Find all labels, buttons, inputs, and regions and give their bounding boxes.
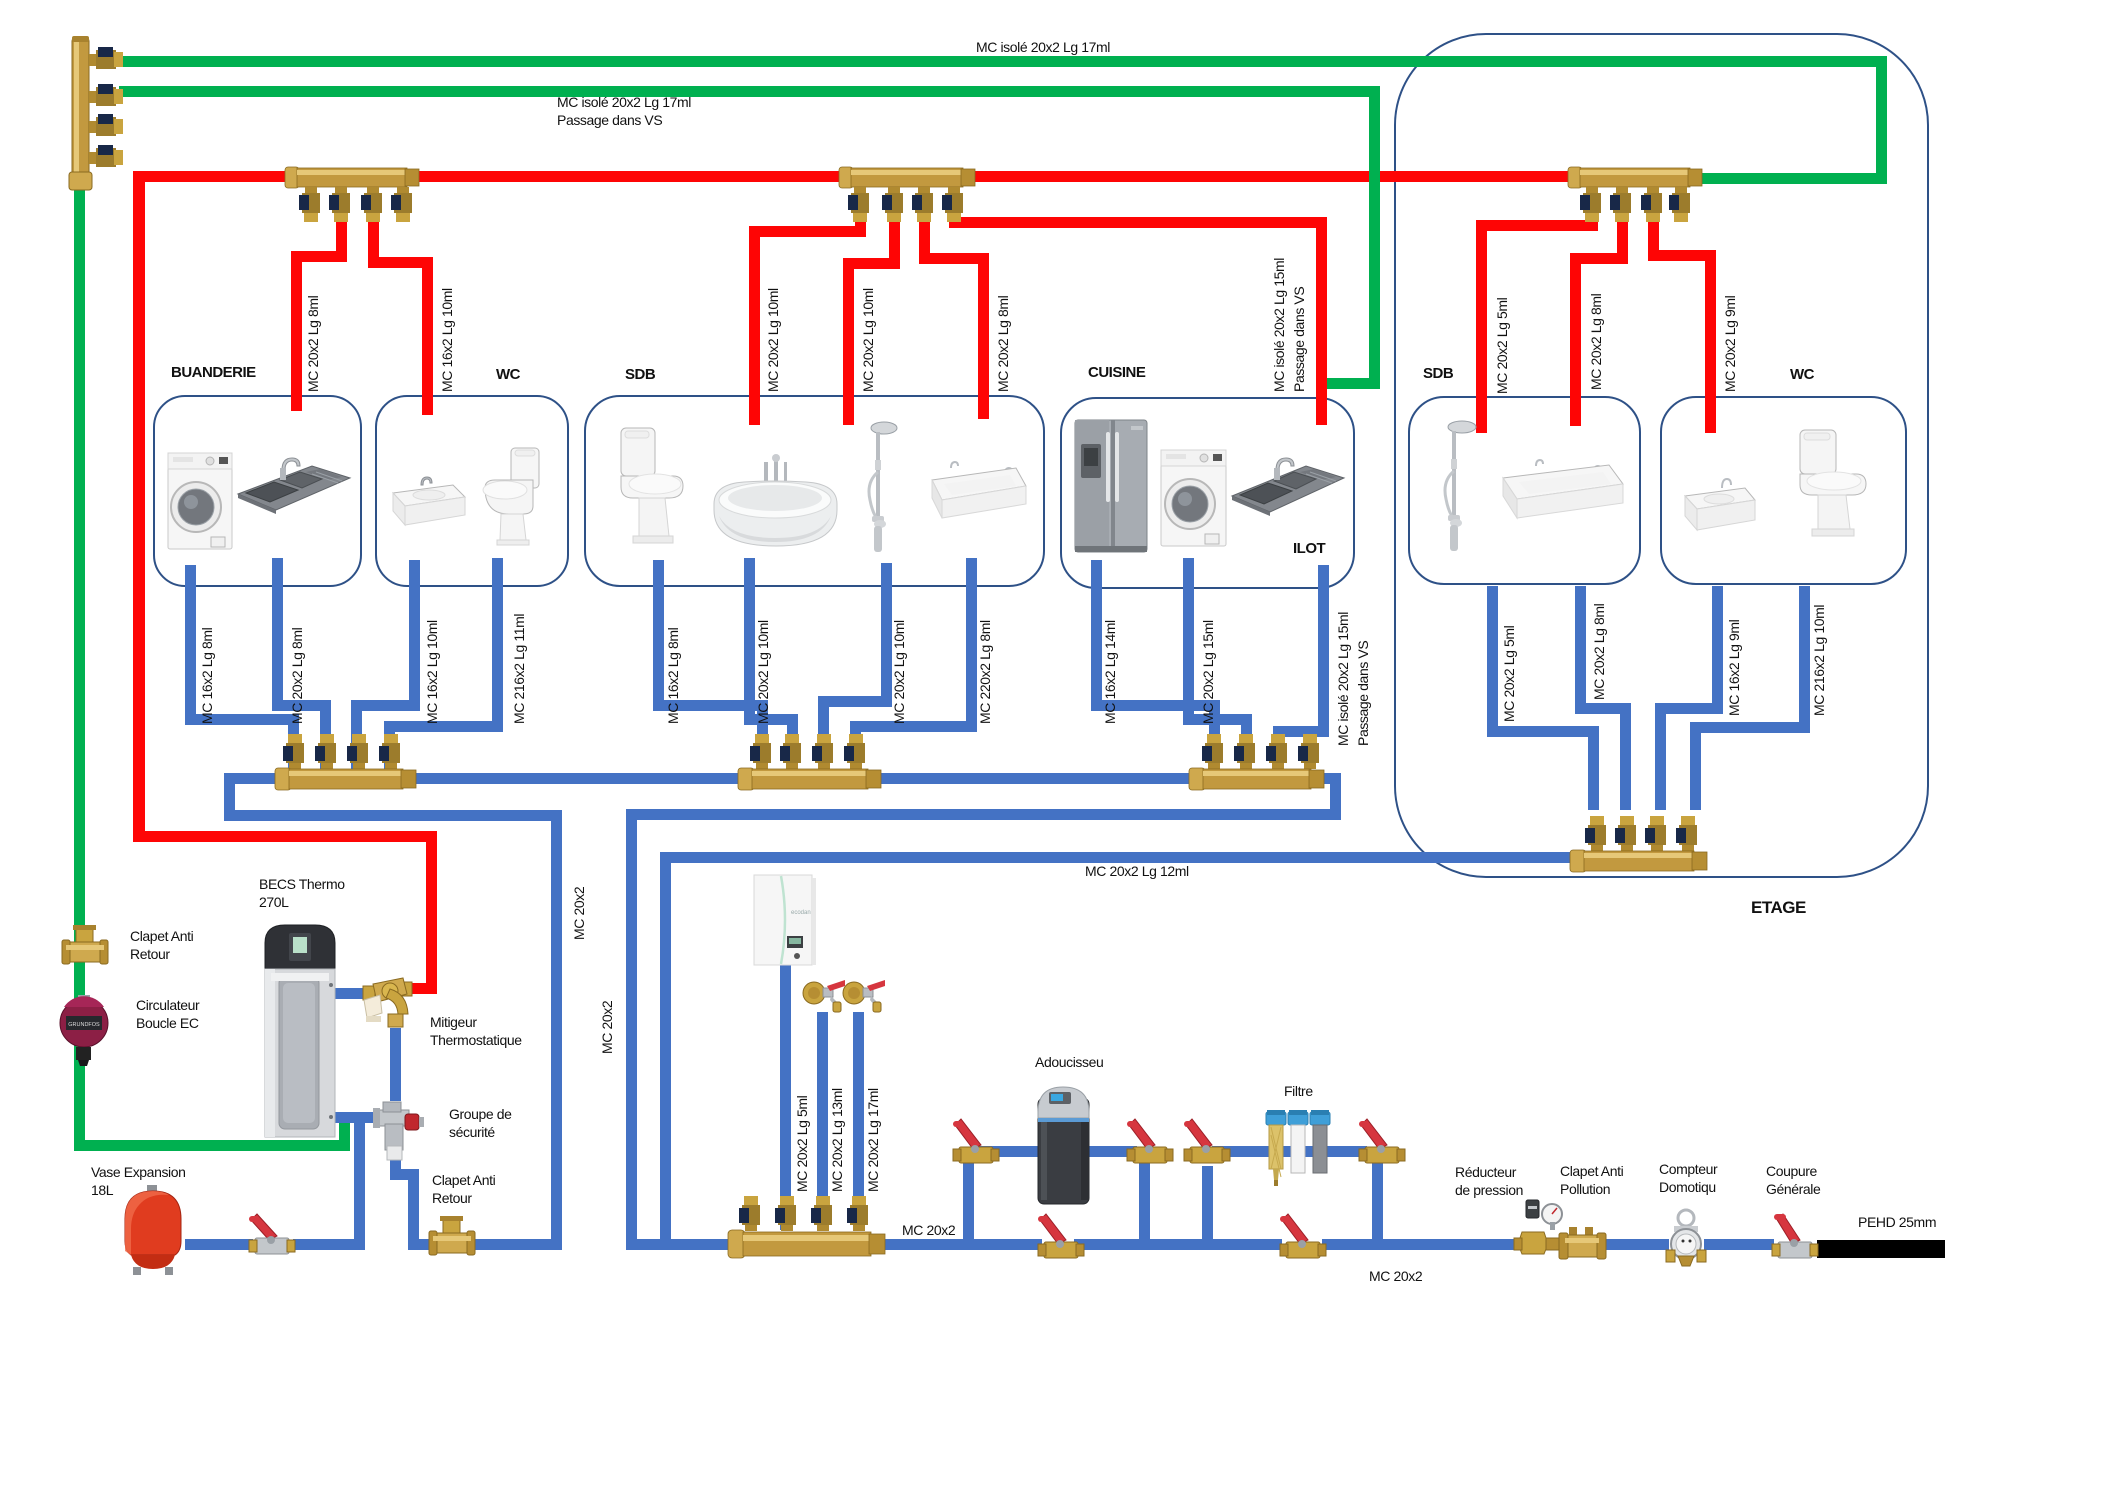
zone SDB etage [1408,396,1641,585]
ball valve filtre inlet [1184,1115,1230,1171]
label Circulateur Boucle EC [136,996,199,1032]
label Clapet Anti Retour (top) [130,927,193,963]
manifold hot 3 (ETAGE) [1568,166,1708,224]
label hot run CUISINE [1272,258,1286,392]
ball valve bypass adoucisseur (main line) [1038,1210,1084,1266]
wire blue manifold2-manifold3 chain [881,773,1191,784]
ball valve filtre outlet [1359,1115,1405,1171]
label Vase Expansion 18L [91,1163,186,1199]
zone ETAGE (outer) [1394,33,1929,878]
wire blue vase stub [185,1239,253,1250]
wall sink SDB etage [1501,458,1625,526]
manifold hot source vertical (top-left) [60,36,124,196]
wire blue adoucisseur inlet [974,1146,1038,1157]
wire green riser to heater bottom [339,1112,350,1151]
wire blue filtre bypass right riser [1372,1160,1383,1250]
adoucisseur (water softener) [1037,1086,1090,1206]
label riser tap2 MC 20x2 Lg 17ml [866,1088,880,1192]
zone BUANDERIE [153,395,362,587]
toilet WC [475,448,543,546]
wire red drop to SDB toilet side [855,208,866,237]
label cold drop sdb etage sink [1592,604,1606,700]
label hot drop BUANDERIE [306,296,320,392]
shower column SDB [858,420,900,558]
tap robinet puisage 2 [843,976,885,1014]
wire blue bottom main manifold4 to valve [885,1239,1042,1250]
label Clapet Anti Retour (bottom) [432,1171,495,1207]
check valve clapet anti retour (heater feed) [429,1216,477,1262]
manifold cold ETAGE [1570,816,1710,874]
wire blue MC20x2 riser B [626,809,637,1250]
wire blue CUISINE washer drop [1183,558,1194,725]
wire red drop to WC [368,208,379,268]
wire blue bottom main clapet to compteur [1603,1239,1669,1250]
label Mitigeur Thermostatique [430,1013,522,1049]
label hot drop WC etage [1723,296,1737,392]
wire blue SDB shower drop [881,563,892,707]
wire blue manifold1 left stub [224,773,277,784]
ball valve coupure generale [1772,1210,1818,1266]
wire green return to ETAGE manifold [1702,173,1887,184]
label cold drop cuisine washer [1201,620,1215,724]
filtre (3 cartridges) [1266,1110,1330,1188]
wire blue vase run to riser [293,1239,354,1250]
compteur domotique [1666,1208,1706,1270]
wire green drop at CUISINE [1369,86,1380,389]
label cold drop buanderie sink [290,628,304,724]
bathtub SDB [712,452,839,552]
label Groupe de securite [449,1105,512,1141]
vase expansion 18L [117,1185,189,1277]
wire red run to CUISINE (MC isole 20x2 Lg 15ml) [949,208,960,228]
wire green right drop inside ETAGE [1876,56,1887,184]
label CUISINE [1088,364,1145,381]
wire blue riser vase expansion [354,1112,365,1250]
label riser ecodan MC 20x2 Lg 5ml [795,1096,809,1192]
BECS Thermo 270L heater [261,921,338,1143]
wire blue WC basin drop [409,560,420,711]
wire green loop return left vertical [74,186,85,1151]
wire red hot bottom run [133,831,437,842]
label MC isole top run [976,38,1110,56]
wire red drop to SDB etage shower [1587,208,1598,231]
svg-text:GRUNDFOS: GRUNDFOS [68,1022,100,1028]
label hot drop SDB etage 2 [1589,294,1603,390]
manifold hot 2 (SDB/CUISINE) [839,166,979,224]
wire blue adoucisseur bypass right riser [1139,1160,1150,1250]
shower column SDB etage [1432,419,1480,557]
wire red drop to SDB etage sink [1617,208,1628,264]
washing machine CUISINE [1160,446,1227,550]
label Coupure Generale [1766,1162,1820,1198]
wire blue bottom main reducteur to clapet pollution [1555,1239,1603,1250]
washing machine BUANDERIE [167,449,233,553]
wire green elbow into CUISINE hot pipe [1327,378,1380,389]
wire blue adoucisseur outlet [1089,1146,1137,1157]
wire blue CUISINE fridge drop [1091,560,1102,711]
label cold drop sdb shower [892,620,906,724]
wire blue manifold3 right feed elbow [1323,773,1341,784]
label riser B MC 20x2 [600,1001,614,1054]
wire blue bottom main B to manifold4 [626,1239,730,1250]
label cold drop wc toilet [512,614,526,724]
label hot drop SDB etage 1 [1495,298,1509,394]
wire blue MC20x2 riser A to heater [551,810,562,1250]
label ETAGE [1751,898,1806,918]
label cold drop cuisine fridge [1103,620,1117,724]
label hot drop WC [440,288,454,392]
label WC etage [1790,366,1814,383]
wire red drop to SDB shower [919,208,930,264]
label BUANDERIE [171,364,256,381]
label cold drop wc etage toilet [1812,605,1826,716]
ecodan control unit [753,874,817,966]
label cold drop sdb toilet [666,628,680,724]
hand basin WC etage [1683,478,1757,536]
label MC 20x2 (bottom main) [1369,1267,1422,1285]
wire blue heater cold inlet run [330,1112,376,1123]
tap robinet puisage 1 [803,976,845,1014]
wire red drop to BUANDERIE [336,208,347,262]
label MC isole VS run [557,93,691,129]
label cold drop sdb bathtub [756,620,770,724]
wire red hot riser from mitigeur [133,171,145,841]
wire blue heater feed run [224,810,562,821]
wire red feed to manifold 1 [145,171,287,182]
wire blue tap1 drop [817,1012,828,1230]
label hot drop SDB 1 [766,288,780,392]
label SDB [625,366,655,383]
wire blue BUANDERIE sink drop [272,558,283,711]
wire blue mitigeur mixed outlet down [390,1028,401,1101]
wire blue WC toilet drop [492,558,503,732]
wire blue CUISINE ilot drop [1318,565,1329,737]
wire red drop to SDB bathtub [889,208,900,269]
label hot drop SDB 3 [996,296,1010,392]
wire blue groupe securite drain [390,1159,401,1180]
wire blue heater to mitigeur [324,988,368,999]
wire blue WC etage toilet drop [1799,586,1810,733]
wire green second run (Passage dans VS) [119,86,1380,97]
mitigeur thermostatique [361,976,413,1032]
reducteur de pression [1514,1198,1564,1260]
label MC 20x2 Lg 12ml [1085,862,1189,880]
ball valve adoucisseur outlet [1127,1115,1173,1171]
manifold cold 1 (BUANDERIE/WC) [275,734,423,792]
wire blue bottom main to reducteur [1322,1239,1518,1250]
toilet WC etage [1790,430,1870,538]
manifold hot 1 (BUANDERIE/WC) [285,166,425,224]
check valve clapet anti retour (boucle EC) [62,925,110,971]
label Compteur Domotiqu [1659,1160,1717,1196]
label PEHD 25mm [1858,1213,1936,1231]
wire blue cold feed run to manifold chain [637,809,1341,820]
hand basin WC [391,477,467,531]
label Reducteur de pression [1455,1163,1523,1199]
manifold cold 3 (CUISINE) [1189,734,1329,792]
label cold drop buanderie washer [200,628,214,724]
groupe de securite [373,1098,425,1162]
kitchen sink BUANDERIE [236,458,352,530]
manifold cold main (bottom) [728,1196,890,1262]
circulateur boucle EC (pump) [56,995,118,1067]
ball valve bypass filtre (main line) [1280,1210,1326,1266]
wire blue filtre branch run [1212,1146,1367,1157]
label WC [496,366,520,383]
fridge CUISINE [1073,418,1151,558]
zone CUISINE [1060,397,1355,589]
clapet anti pollution [1559,1227,1607,1265]
wire red hot riser above mitigeur [426,831,437,994]
kitchen sink CUISINE (ILOT) [1230,456,1346,532]
label riser A MC 20x2 [572,887,586,940]
label Filtre [1284,1082,1313,1100]
wire blue SDB sink drop [966,558,977,732]
label BECS Thermo 270L [259,875,345,911]
wire blue manifold1-manifold2 chain [416,773,740,784]
wire blue bottom main clapet to riser A [471,1239,551,1250]
wire red manifold2 to manifold3 [975,171,1570,182]
wire blue MC20x2 Lg12ml run to ETAGE manifold [660,852,1572,863]
zone WC etage [1660,396,1907,585]
label cold drop sdb etage shower [1502,626,1516,722]
label Adoucisseu [1035,1053,1103,1071]
label cold drop sdb sink [978,620,992,724]
wire red stub to mitigeur [406,983,437,994]
ball valve adoucisseur inlet [953,1115,999,1171]
zone SDB ground floor [584,395,1045,587]
label cold drop wc basin [425,620,439,724]
wire blue WC etage basin drop [1712,586,1723,714]
wire blue BUANDERIE washer drop [185,565,196,725]
wire red manifold1 to manifold2 [419,171,841,182]
wire blue adoucisseur bypass left riser [963,1163,974,1250]
wire blue SDB etage shower drop [1487,586,1498,737]
label SDB etage [1423,365,1453,382]
wire blue MC20x2 Lg12ml riser C [660,852,671,1243]
wire green recirculation top run [119,56,1887,67]
label cold drop wc etage basin [1727,620,1741,716]
wire blue SDB toilet drop [653,560,664,711]
wire red drop to WC etage [1648,208,1659,261]
wire blue SDB etage sink drop [1575,586,1586,714]
ball valve vase expansion [249,1212,295,1262]
label hot drop SDB 2 [861,288,875,392]
label Clapet Anti Pollution [1560,1162,1623,1198]
wire blue bottom main valve to valve [1074,1239,1282,1250]
toilet SDB [613,428,687,546]
wire blue filtre bypass left riser [1202,1166,1213,1250]
wire blue ecodan drop [780,964,791,1230]
wire blue tap2 drop [853,1012,864,1230]
wire blue SDB bathtub drop [744,558,755,725]
label MC 20x2 (manifold out) [902,1221,955,1239]
manifold cold 2 (SDB) [738,734,886,792]
wire green bottom run to heater [74,1140,350,1151]
zone WC ground floor [375,395,569,587]
svg-text:ecodan: ecodan [791,910,811,916]
wire blue bottom main compteur to coupure [1704,1239,1774,1250]
wall sink SDB [930,462,1028,528]
wire black PEHD 25mm inlet [1817,1240,1945,1258]
label ILOT [1293,540,1325,557]
label riser tap1 MC 20x2 Lg 13ml [830,1088,844,1192]
label cold run ilot [1336,612,1350,746]
